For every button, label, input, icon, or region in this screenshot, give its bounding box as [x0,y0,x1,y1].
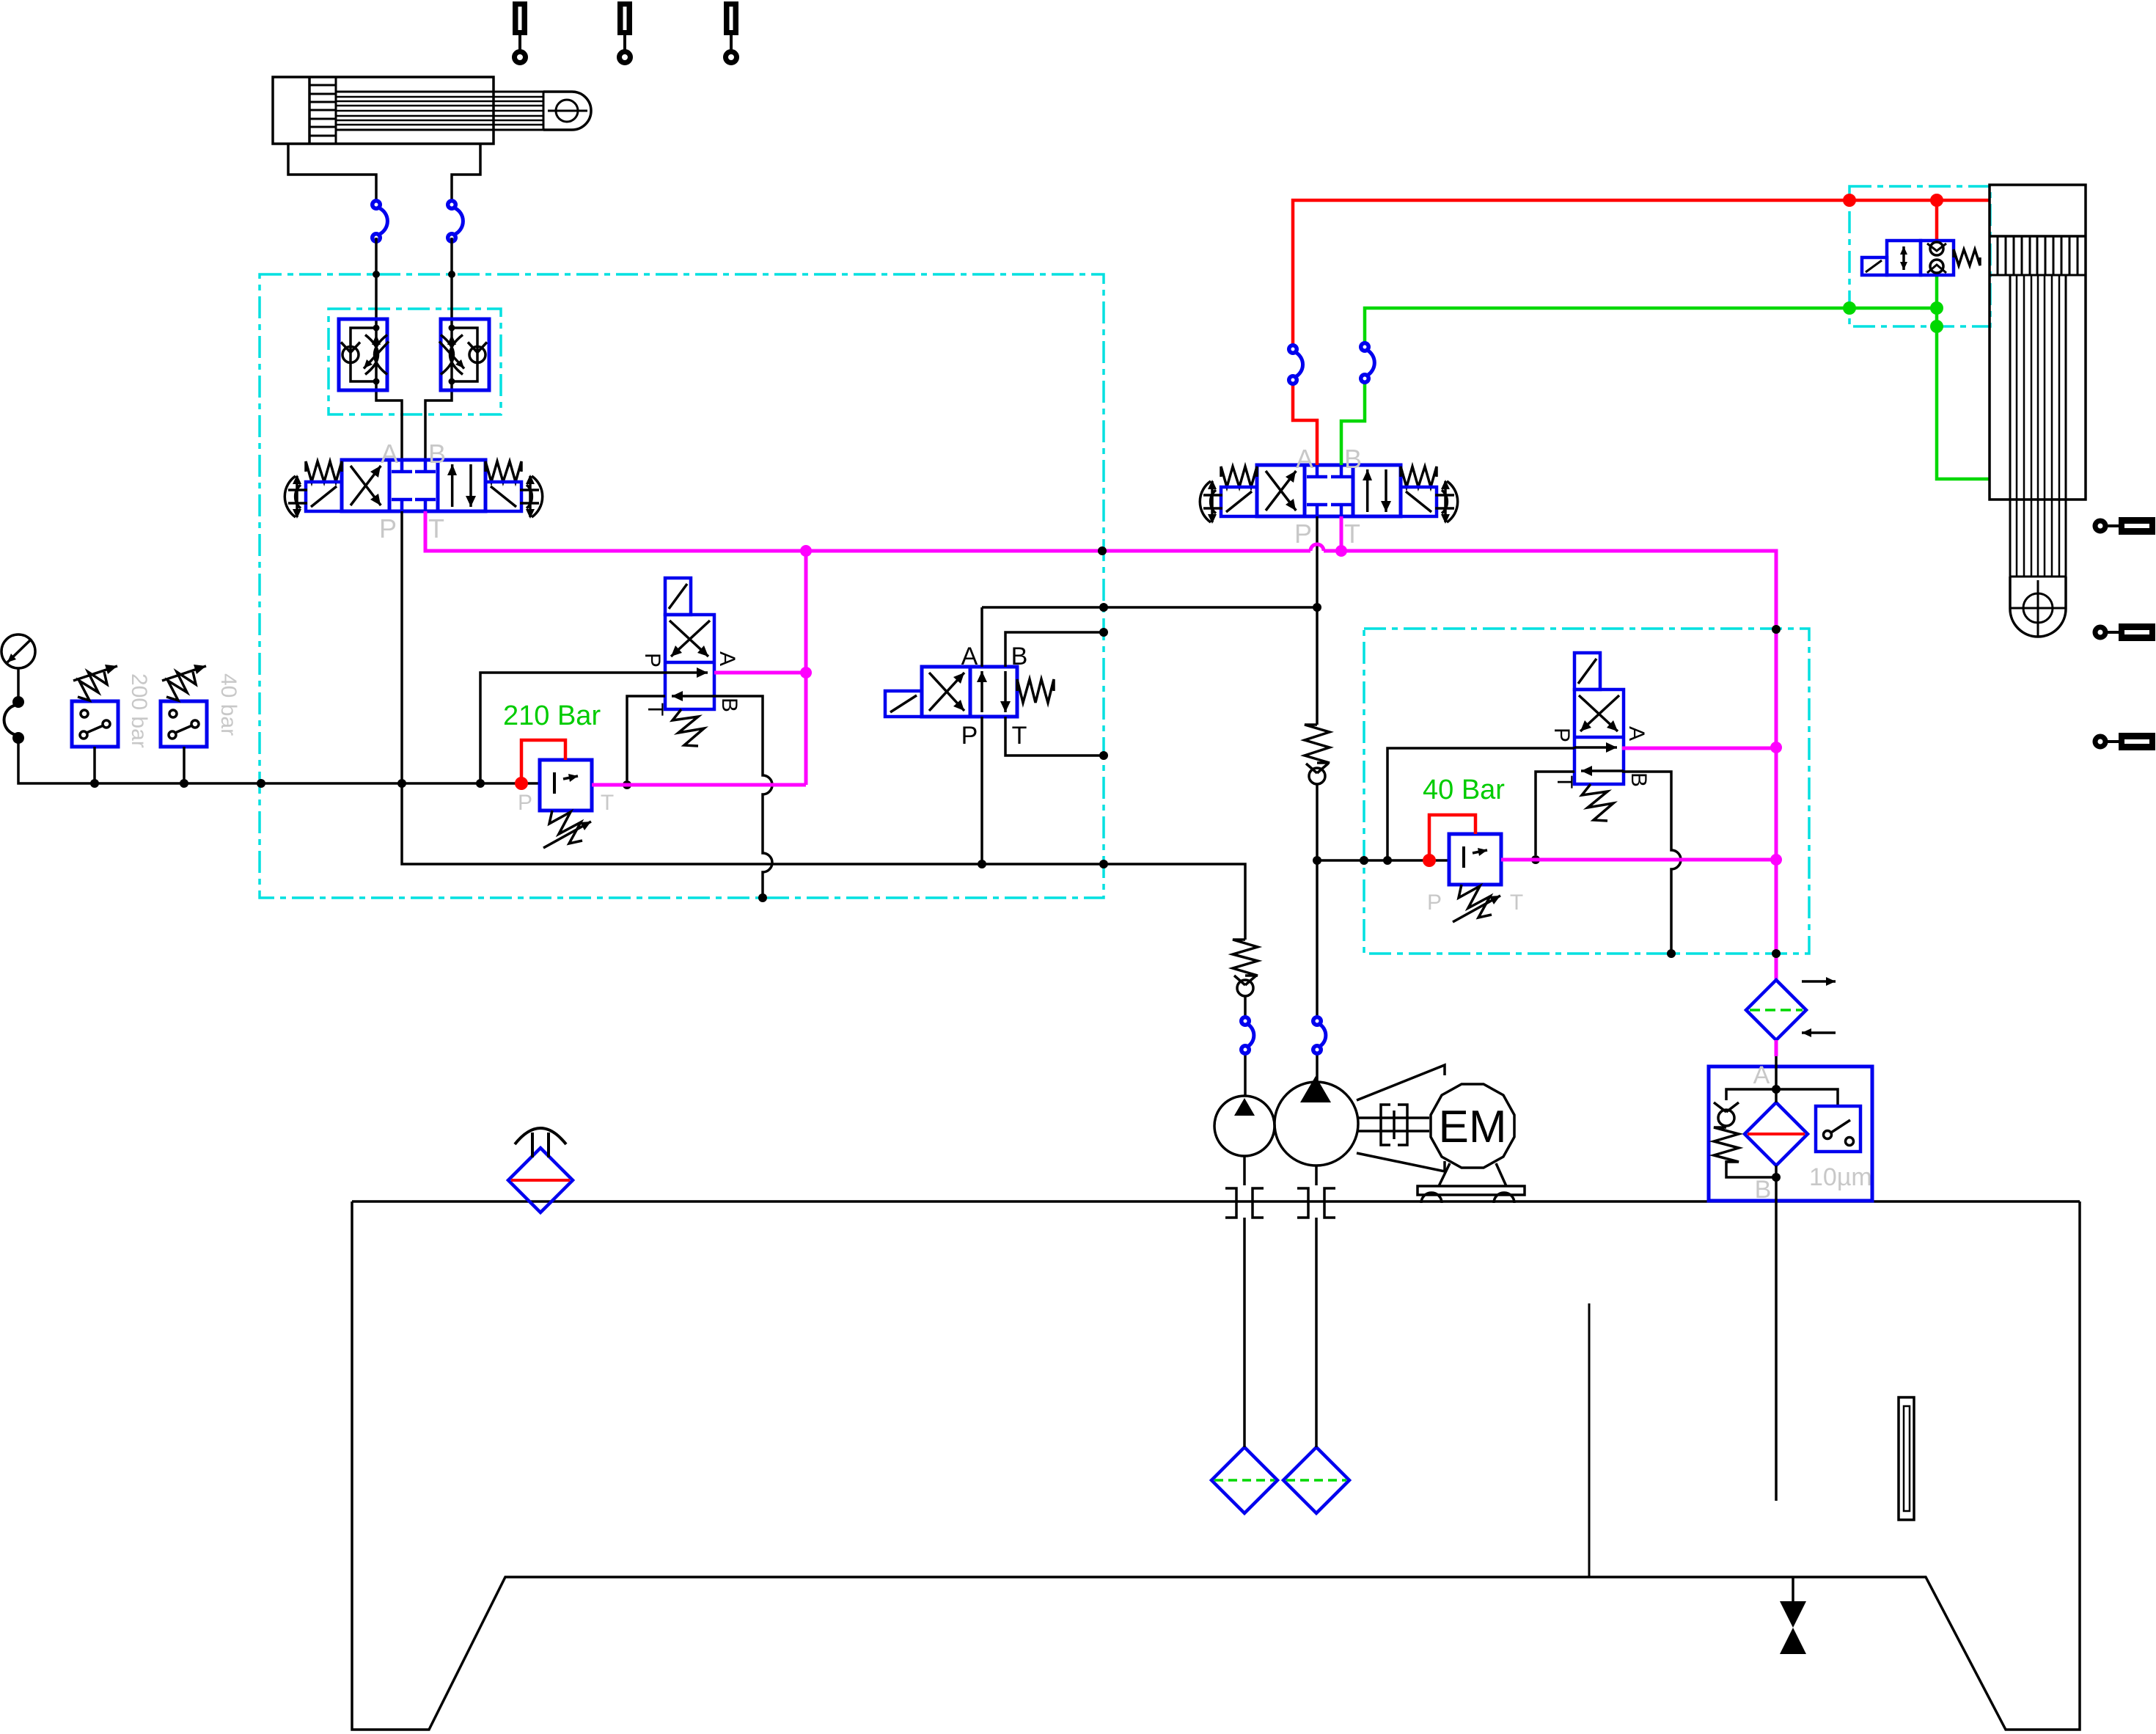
wire DV3 B and T to block ports [1005,632,1104,756]
bypass check branch [1726,1089,1776,1100]
solenoid vent valve SV2 [1574,689,1624,784]
quick coupling B side [454,208,463,235]
suction flange 1 [1225,1188,1264,1218]
svg-text:P: P [379,513,397,544]
CYL1 port piping [288,144,480,203]
SV2 A magenta [1622,747,1776,750]
position sensor plug 3 [724,1,738,35]
SV2 T wire [1536,772,1574,855]
SV1 P wire [480,673,665,783]
check valve CV2 [1316,516,1319,725]
pressure switch PS1 (200 bar) [72,701,118,747]
suction flange 2 [1297,1188,1335,1218]
svg-text:A: A [961,643,978,670]
quick coupling pump2 [1319,1024,1326,1047]
flow-control sub-block boundary (cyan) [329,309,501,414]
svg-text:A: A [1753,1061,1770,1089]
red branch to pilot valve [1935,200,1939,241]
suction pipe 2 [1315,1166,1318,1447]
filter outlet to tank [1775,1166,1778,1501]
directional valve DV2 (4/3) [1257,465,1401,516]
quick coupling green [1367,350,1374,376]
svg-text:210 Bar: 210 Bar [503,700,601,731]
motor stand [1439,1163,1506,1186]
electric motor EM [1431,1084,1514,1168]
directional valve DV3 (4/2) [922,667,1017,717]
limit sensor R2 [2095,627,2105,637]
quick coupling A side [378,208,387,235]
svg-text:B: B [717,698,741,712]
magenta stubs at cooler [1775,1040,1778,1056]
position sensor plug 1 [513,1,527,35]
filter inlet wire [1775,1056,1778,1102]
svg-text:EM: EM [1439,1102,1507,1152]
SV1 A magenta [714,671,806,675]
SV1 B wire with hops [714,696,772,898]
gauge line + test coupling [17,668,20,702]
pump P1 [1214,1096,1275,1156]
RV1 red pilot line [521,740,565,783]
svg-text:T: T [1552,775,1577,789]
cylinder CYL2 body [1990,185,2086,500]
svg-text:P: P [1550,728,1574,742]
SV2 P wire [1387,748,1574,860]
level indicator [1899,1397,1914,1520]
pilot check valve PCV [1887,241,1921,275]
clog indicator switch [1776,1089,1838,1106]
svg-text:A: A [1624,726,1649,741]
red line DV2 A to rod side [1293,200,1990,465]
tank baffle [1588,1303,1591,1577]
pump P2 [1275,1082,1358,1166]
limit sensor R1 [2095,521,2105,531]
green line DV2 B to piston side [1341,275,1990,479]
switch stubs [93,747,96,783]
RV2 T magenta [1501,858,1776,862]
suction strainer 1 [1211,1447,1277,1513]
position sensor plug 2 [617,1,632,35]
flow control valve FCV1 [339,319,387,390]
cooler [1746,980,1806,1040]
wire pump2 supply to DV3 [982,607,1317,864]
pressure gauge [1,634,35,668]
SV2 B wire with hop [1622,772,1681,954]
SV1 T wire [627,696,665,780]
wire cyl B to valve B [425,238,452,460]
svg-text:P: P [640,653,664,667]
svg-text:A: A [1296,444,1313,474]
svg-text:10µm: 10µm [1809,1163,1872,1191]
svg-text:T: T [643,703,667,716]
DV2 T magenta stub [1340,516,1343,551]
svg-text:B: B [1011,643,1028,670]
tank return magenta main [425,511,1776,980]
CYL1 rod [336,92,543,130]
drain valve [1792,1577,1794,1603]
CYL2 rod [2010,275,2066,577]
relief valve RV1 (210 Bar) [540,760,592,811]
svg-text:T: T [601,791,614,815]
quick coupling red [1295,352,1303,377]
CYL2 clevis [2010,577,2066,637]
svg-text:P: P [518,791,532,815]
svg-text:P: P [961,722,978,750]
manifold block boundary (left, cyan dash-dot) [260,274,1104,898]
suction strainer 2 [1283,1447,1349,1513]
svg-text:B: B [1627,772,1651,787]
flow control valve FCV2 [441,319,489,390]
svg-text:B: B [1755,1176,1772,1204]
wire supply to 40bar block [1317,859,1449,862]
wire cyl A to valve A [376,238,402,460]
breather filter [508,1148,573,1212]
suction pipe 1 [1243,1156,1246,1447]
solenoid vent valve SV1 [665,615,714,709]
svg-text:P: P [1427,890,1442,915]
limit sensor R3 [2095,736,2105,747]
svg-text:200 bar: 200 bar [127,673,151,748]
RV2 red pilot line [1429,815,1475,860]
CYL2 piston hatch [1998,236,2078,275]
wire DV1 P down and across to check valve [402,511,1245,940]
relief valve RV2 (40 Bar) [1449,834,1501,885]
cylinder CYL1 body [273,77,494,144]
pilot check block boundary (top right, cyan) [1849,186,1990,326]
motor shaft + coupling [1358,1116,1429,1119]
quick coupling pump1 [1247,1024,1254,1047]
svg-text:T: T [1012,722,1027,750]
check valve CV1 [1233,940,1258,976]
svg-text:T: T [1510,890,1523,915]
svg-text:T: T [428,513,444,544]
pressure switch PS2 (40 bar) [161,701,207,747]
CYL1 rod clevis [543,92,591,130]
tank outline [352,1201,2080,1730]
belt guard lines [1357,1065,1445,1171]
return filter box [1709,1067,1872,1201]
svg-text:T: T [1344,519,1360,549]
svg-text:40 Bar: 40 Bar [1423,775,1505,805]
svg-text:P: P [1294,519,1312,549]
svg-text:B: B [428,439,446,469]
40 bar block boundary (cyan) [1364,629,1809,954]
svg-text:B: B [1344,444,1362,474]
CYL1 piston hatch [309,85,336,136]
filter element [1745,1102,1808,1166]
directional valve DV1 (4/3) [342,460,485,511]
RV1 T magenta [592,551,806,785]
svg-text:A: A [381,439,398,469]
svg-text:40 bar: 40 bar [216,673,241,736]
svg-text:A: A [715,651,739,666]
